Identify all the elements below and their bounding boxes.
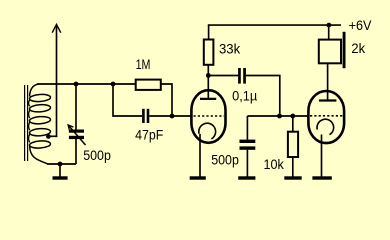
coil L1 turn 3: [29, 116, 50, 125]
wire: 0,1u cap right lead with drop to V2 grid wire: [246, 76, 280, 117]
ground (500p bottom): [238, 176, 255, 179]
tube V2 anode bar: [319, 99, 337, 101]
wire: 33k top lead to +6V rail: [208, 25, 210, 39]
tube V2 grid (dashed): [310, 115, 343, 117]
capacitor C3 0,1u plates: [238, 68, 246, 84]
svg-text:500p: 500p: [211, 151, 239, 167]
resistor R1 1M box: [136, 80, 161, 90]
ground (10k): [284, 176, 301, 179]
coil L1 turn 5: [29, 140, 50, 149]
coil L1 winding entry curve: [30, 84, 39, 97]
coil L1 turn 2: [29, 104, 50, 113]
wire: 500p (bottom) top lead: [246, 116, 248, 140]
svg-text:10k: 10k: [264, 156, 285, 172]
wire: 47pF branch drop from top wire: [113, 84, 142, 116]
tube V2 envelope: [308, 91, 344, 143]
wire: 10k ground lead: [292, 157, 294, 177]
node: +6V rail / earphone: [327, 23, 332, 28]
node: V2 grid / 0,1u: [277, 114, 282, 119]
wire: bottom-left horizontal (coil bottom to variable cap): [47, 163, 76, 165]
earphone diaphragm bar: [343, 32, 346, 68]
variable capacitor C1 500p plates: [69, 130, 84, 140]
coil L1 turn 4: [29, 128, 50, 137]
antenna arrowhead: [52, 24, 61, 32]
svg-text:+6V: +6V: [349, 17, 372, 33]
svg-text:500p: 500p: [83, 147, 111, 163]
coil L1 core lines: [25, 85, 28, 161]
wire: V2 cathode lead to ground: [321, 135, 323, 177]
coil L1 turn 1: [29, 94, 50, 103]
wire: node to tube V1 grid: [172, 115, 192, 117]
wire: V1 anode lead up to 33k: [207, 65, 209, 99]
wire: variable capacitor bottom lead: [75, 139, 77, 164]
wire: top-left horizontal (coil top to 1M): [37, 83, 136, 85]
wire: ground lead below bottom-left wire: [59, 164, 61, 177]
resistor R3 10k box: [288, 132, 298, 157]
wire: 10k top lead: [292, 116, 294, 132]
variable capacitor C1 arrow: [68, 125, 85, 145]
svg-text:0,1µ: 0,1µ: [232, 88, 257, 104]
svg-text:1M: 1M: [136, 56, 151, 72]
wire: variable capacitor top lead: [75, 84, 77, 130]
tube V2 cathode arc: [317, 119, 334, 134]
svg-text:2k: 2k: [351, 40, 366, 56]
node: bottom wire / ground: [58, 162, 63, 167]
wire: 500p (bottom) ground lead: [246, 150, 248, 177]
coil L1 winding exit curve: [30, 147, 48, 164]
earphone 2k box: [319, 40, 341, 64]
coil L1 inter-turn connectors: [29, 100, 30, 143]
svg-text:47pF: 47pF: [135, 127, 163, 143]
node: top wire / 47pF branch: [111, 82, 116, 87]
resistor R2 33k box: [204, 40, 214, 65]
wire: V2 grid wire: [247, 115, 308, 117]
wire: +6V supply rail: [208, 24, 341, 26]
wire: coil tap to antenna line: [48, 135, 57, 137]
node: V1 anode / 0,1u: [206, 73, 211, 78]
tube V1 anode bar: [200, 98, 216, 100]
svg-text:33k: 33k: [219, 41, 241, 57]
wire: earphone top lead from rail: [328, 25, 330, 39]
node: V2 grid / 10k: [290, 114, 295, 119]
ground (V2 cathode): [312, 176, 331, 179]
wire: 47pF right lead to node: [149, 115, 172, 117]
node: RC output to grid V1: [170, 114, 175, 119]
tube V1 envelope: [191, 90, 225, 143]
antenna vertical wire: [56, 25, 58, 137]
ground (bottom-left): [53, 176, 68, 179]
tube V1 cathode arc: [199, 123, 216, 139]
ground (V1 cathode): [190, 176, 206, 179]
node: top wire / variable cap: [74, 82, 79, 87]
wire: V1 cathode lead to ground: [199, 134, 201, 177]
wire: anode dot to 0,1u cap: [208, 75, 238, 77]
wire: 1M right lead and drop to node: [161, 84, 172, 116]
capacitor C2 47pF plates: [142, 109, 149, 123]
tube V1 grid (dashed): [194, 115, 225, 117]
node: coil tap: [46, 134, 51, 139]
capacitor C4 500p (bottom) plates: [240, 140, 256, 150]
wire: earphone bottom lead to V2 anode: [327, 63, 329, 100]
